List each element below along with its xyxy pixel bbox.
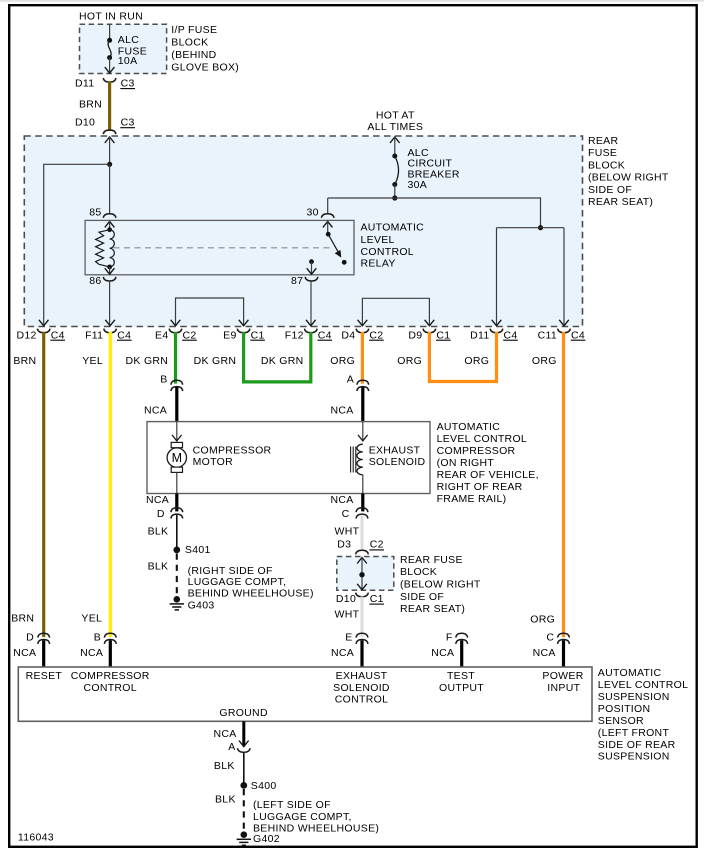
svg-text:CONTROL: CONTROL [361,246,414,258]
svg-text:C1: C1 [436,329,450,341]
connector D11 C3 [103,78,116,82]
svg-text:DK GRN: DK GRN [261,355,304,367]
svg-text:EXHAUST: EXHAUST [369,444,421,456]
splice S400 [240,782,247,789]
svg-text:WHT: WHT [335,608,360,620]
svg-text:MOTOR: MOTOR [193,456,234,468]
svg-text:LUGGAGE COMPT,: LUGGAGE COMPT, [253,811,352,823]
svg-text:30: 30 [307,206,319,218]
svg-text:LEVEL CONTROL: LEVEL CONTROL [437,433,527,445]
svg-text:AUTOMATIC: AUTOMATIC [598,667,662,679]
svg-text:COMPRESSOR: COMPRESSOR [437,445,516,457]
svg-text:DK GRN: DK GRN [126,355,169,367]
wire WHT D10 to E [361,597,364,638]
svg-text:85: 85 [89,206,101,218]
svg-text:D10: D10 [75,116,95,128]
wire: junction to relay 85 [109,164,111,214]
svg-text:D4: D4 [341,329,355,341]
svg-text:D11: D11 [75,77,94,89]
wire through small box [361,557,363,590]
svg-text:C2: C2 [370,539,384,551]
svg-text:CONTROL: CONTROL [83,682,136,694]
wire motor to box bottom [176,472,178,493]
wire: C11 drop [563,228,565,326]
pin 87 contact [309,259,314,264]
svg-text:D: D [157,508,165,520]
svg-text:BLK: BLK [214,760,235,772]
wire ORG C11 to sensor C [562,332,565,637]
svg-text:BLOCK: BLOCK [171,36,208,48]
wire BLK dashed to G402 [243,789,245,831]
wire: breaker to feed junction [394,185,396,199]
svg-text:COMPRESSOR: COMPRESSOR [71,670,150,682]
entry arrow HOT AT ALL TIMES [390,137,400,143]
wire: feed bus horizontal [328,198,541,228]
svg-text:C1: C1 [370,593,384,605]
svg-text:A: A [347,373,354,385]
svg-text:F11: F11 [85,329,103,341]
svg-text:SUSPENSION: SUSPENSION [598,751,670,763]
svg-text:B: B [94,632,101,644]
wire 87 to F12 exit [310,281,312,326]
small box exit arrow [357,584,367,590]
svg-text:SIDE OF: SIDE OF [400,591,444,603]
wire BRN D12 to sensor D [42,332,45,637]
wire: feed into fuse [109,24,111,40]
splice S401 [173,547,180,554]
small REAR FUSE BLOCK dashed box [337,557,394,591]
svg-text:ORG: ORG [330,355,355,367]
svg-text:LEVEL CONTROL: LEVEL CONTROL [598,679,688,691]
svg-text:REAR SEAT): REAR SEAT) [400,603,465,615]
svg-text:D10: D10 [336,593,356,605]
wire ORG loop D9-D11 [429,332,496,382]
svg-text:COMPRESSOR: COMPRESSOR [193,444,272,456]
svg-text:LUGGAGE COMPT,: LUGGAGE COMPT, [188,576,287,588]
junction dot at feed [392,195,397,200]
svg-text:(LEFT SIDE OF: (LEFT SIDE OF [253,799,331,811]
svg-text:C11: C11 [538,329,557,341]
svg-text:30A: 30A [408,179,428,191]
svg-text:E9: E9 [223,329,236,341]
relay internal dashed linkage [114,247,332,249]
svg-text:AUTOMATIC: AUTOMATIC [361,221,425,233]
svg-text:TEST: TEST [447,670,475,682]
svg-text:NCA: NCA [146,494,169,506]
svg-text:BLOCK: BLOCK [588,159,625,171]
svg-text:FUSE: FUSE [588,147,617,159]
exhaust solenoid coil [357,444,363,475]
svg-text:NCA: NCA [144,405,167,417]
fuse ALC FUSE 10A [107,38,112,60]
wire: entry to breaker [394,137,396,156]
svg-text:NCA: NCA [331,647,354,659]
wire BLK to S400 [243,753,245,784]
svg-text:(BELOW RIGHT: (BELOW RIGHT [400,579,481,591]
junction dot [107,162,112,167]
svg-text:BRN: BRN [79,99,102,111]
svg-text:HOT IN RUN: HOT IN RUN [79,11,143,23]
svg-text:REAR SEAT): REAR SEAT) [588,196,653,208]
svg-text:E: E [345,632,352,644]
small box entry arrow [357,558,367,564]
wire DK GRN loop E9-F12 [244,332,311,382]
svg-text:C4: C4 [117,329,131,341]
wire NCA B to compressor [175,387,178,421]
svg-text:WHT: WHT [335,526,360,538]
svg-text:D12: D12 [17,329,37,341]
I/P fuse block dashed box [80,24,167,73]
wire 86 to F11 exit [109,281,111,326]
wire BLK to S401 [176,515,178,548]
svg-text:NCA: NCA [331,405,354,417]
svg-text:POWER: POWER [542,670,583,682]
svg-text:C: C [546,632,554,644]
svg-text:NCA: NCA [431,647,454,659]
svg-text:C: C [342,508,350,520]
svg-text:BEHIND WHEELHOUSE): BEHIND WHEELHOUSE) [188,587,314,599]
svg-text:NCA: NCA [533,647,556,659]
svg-text:C4: C4 [504,329,518,341]
svg-text:D3: D3 [337,539,351,551]
svg-text:C1: C1 [251,329,265,341]
svg-text:EXHAUST: EXHAUST [336,670,388,682]
ground G403 [170,596,184,610]
svg-text:SUSPENSION: SUSPENSION [598,691,670,703]
svg-text:REAR FUSE: REAR FUSE [400,554,463,566]
svg-text:GROUND: GROUND [219,707,268,719]
svg-text:CONTROL: CONTROL [335,694,388,706]
svg-text:RIGHT OF REAR: RIGHT OF REAR [437,481,523,493]
svg-text:G402: G402 [253,833,280,845]
svg-text:S401: S401 [185,544,211,556]
svg-text:INPUT: INPUT [547,682,580,694]
svg-text:SIDE OF: SIDE OF [588,184,632,196]
svg-text:BLK: BLK [215,794,236,806]
svg-text:C3: C3 [121,116,135,128]
wire solenoid to box bottom [362,475,364,494]
wire: branch left to D12 drop [44,164,110,325]
top gray strip [0,0,704,2]
wire coil to pin 86 [109,267,111,274]
wire BRN D11->D10 [108,81,111,131]
wire into motor with arrow [176,422,178,441]
wire NCA below solenoid [361,494,364,512]
svg-text:OUTPUT: OUTPUT [439,682,484,694]
wire BLK dashed to G403 [176,554,178,596]
internal bus bridge D4-D9 [362,298,429,325]
svg-text:A: A [228,741,235,753]
svg-text:C4: C4 [318,329,332,341]
svg-text:C3: C3 [121,77,135,89]
svg-text:SOLENOID: SOLENOID [333,682,390,694]
wire NCA below motor [175,494,178,512]
wire: fuse to block exit [109,58,111,73]
wire ORG D4 to connector A [361,332,364,384]
svg-text:SENSOR: SENSOR [598,715,644,727]
svg-text:(RIGHT SIDE OF: (RIGHT SIDE OF [188,565,273,577]
internal bus bridge E4-E9 [176,298,244,326]
exit arrows [39,320,569,326]
wire YEL F11 to sensor B [109,332,112,637]
svg-text:YEL: YEL [81,612,102,624]
svg-text:RESET: RESET [26,670,63,682]
svg-text:F12: F12 [285,329,304,341]
svg-text:ORG: ORG [532,355,557,367]
svg-text:REAR: REAR [588,135,618,147]
svg-text:NCA: NCA [214,728,237,740]
svg-text:C2: C2 [183,329,197,341]
svg-text:D: D [26,632,34,644]
junction dot right [538,225,543,230]
svg-text:BLK: BLK [148,526,169,538]
junction dot in small box [359,572,364,577]
circuit breaker ALC 30A [392,154,398,188]
svg-text:M: M [172,451,182,465]
svg-text:ORG: ORG [530,613,555,625]
svg-text:SOLENOID: SOLENOID [369,456,426,468]
wire DK GRN E4 to connector B [174,332,177,384]
svg-text:(BEHIND: (BEHIND [171,49,216,61]
svg-text:(ON RIGHT: (ON RIGHT [437,457,495,469]
svg-text:87: 87 [291,275,303,287]
svg-text:ALC: ALC [118,34,139,46]
solenoid core lines [350,447,352,473]
svg-text:SIDE OF REAR: SIDE OF REAR [598,739,676,751]
wires NCA into sensor box [42,640,45,667]
wire: feed to relay 30 [327,198,329,214]
svg-text:AUTOMATIC: AUTOMATIC [437,421,501,433]
svg-text:DK GRN: DK GRN [194,355,237,367]
exit connector cups [37,329,570,333]
svg-text:G403: G403 [188,600,215,612]
svg-text:HOT AT: HOT AT [376,109,415,121]
entry arrow from D10 [105,137,115,143]
svg-text:NCA: NCA [80,647,103,659]
svg-text:ORG: ORG [397,355,422,367]
svg-text:B: B [160,373,167,385]
svg-text:BRN: BRN [11,612,34,624]
svg-text:RELAY: RELAY [361,257,396,269]
svg-text:E4: E4 [155,329,168,341]
svg-text:FRAME RAIL): FRAME RAIL) [437,493,507,505]
svg-text:NCA: NCA [13,647,36,659]
wire NCA A to compressor [361,387,364,421]
svg-text:POSITION: POSITION [598,703,651,715]
svg-text:C4: C4 [571,329,585,341]
compressor motor M [171,442,182,447]
svg-text:86: 86 [89,275,101,287]
wire WHT C to D3 [361,515,364,551]
svg-text:BLK: BLK [148,561,169,573]
svg-text:I/P FUSE: I/P FUSE [171,24,217,36]
svg-text:(BELOW RIGHT: (BELOW RIGHT [588,172,669,184]
svg-text:S400: S400 [251,780,277,792]
svg-text:BRN: BRN [13,355,36,367]
wire: split to D11 and C11 [497,227,565,229]
svg-text:C4: C4 [51,329,65,341]
pin 86 exit [105,268,115,274]
svg-text:(LEFT FRONT: (LEFT FRONT [598,727,670,739]
pin 87 exit [307,268,317,274]
svg-text:D9: D9 [408,329,422,341]
exit arrow at I/P fuse block bottom [105,67,115,73]
svg-text:ALL TIMES: ALL TIMES [367,121,423,133]
connector A (ground lead) [239,741,249,747]
svg-text:C2: C2 [369,329,383,341]
svg-text:NCA: NCA [331,494,354,506]
wire: entry down to junction [109,137,111,165]
svg-text:YEL: YEL [82,355,103,367]
ground G402 [237,831,251,845]
relay switch [327,221,329,234]
svg-text:ORG: ORG [464,355,489,367]
svg-text:GLOVE BOX): GLOVE BOX) [171,61,239,73]
wire: D11 drop [496,228,498,326]
svg-text:10A: 10A [118,55,138,67]
svg-text:116043: 116043 [18,831,54,843]
svg-text:REAR OF VEHICLE,: REAR OF VEHICLE, [437,469,539,481]
svg-text:D11: D11 [470,329,489,341]
svg-text:BLOCK: BLOCK [400,566,437,578]
wire into solenoid with arrow [362,422,364,441]
ground wire from sensor [242,721,245,746]
svg-text:LEVEL: LEVEL [361,234,395,246]
svg-text:F: F [446,632,453,644]
relay coil (resistor + winding) [109,221,111,230]
